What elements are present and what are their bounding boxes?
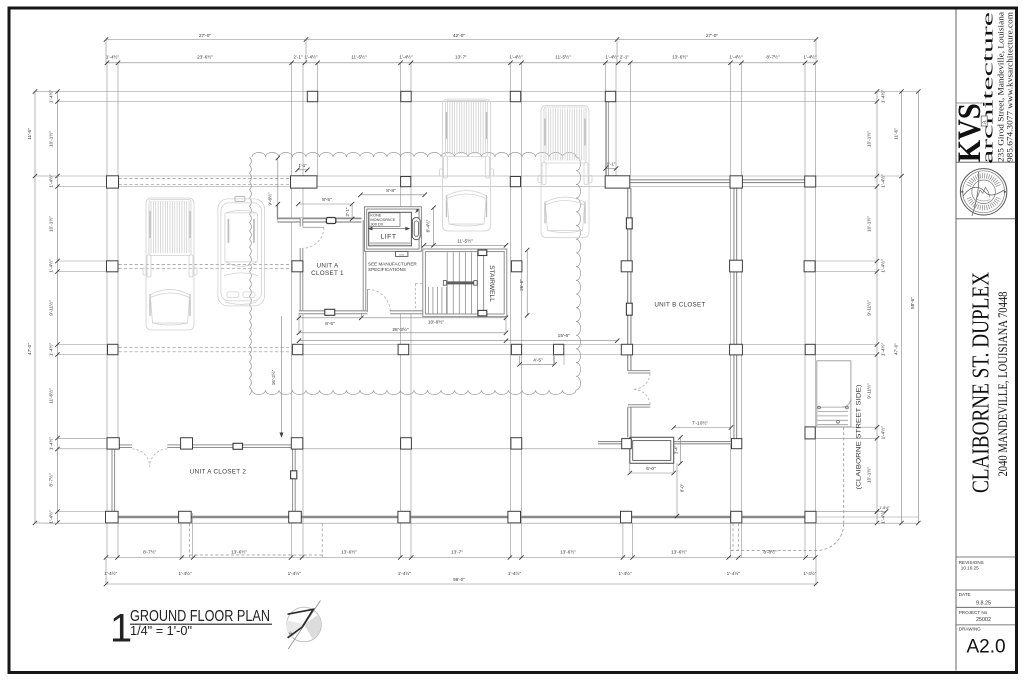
svg-text:2'-1": 2'-1" (620, 55, 630, 60)
svg-text:1'-4½": 1'-4½" (880, 510, 886, 524)
wide column C6 at R2 (605, 176, 630, 188)
R6 top line extension right (816, 510, 886, 512)
svg-text:26'-6": 26'-6" (519, 279, 524, 291)
svg-text:CLAIBORNE ST. DUPLEX: CLAIBORNE ST. DUPLEX (969, 272, 995, 493)
dim 6-0 below stoop (630, 472, 674, 474)
stair main flight treads (446, 252, 448, 313)
right dimension chain (876, 92, 878, 524)
svg-text:96'-0": 96'-0" (453, 577, 465, 582)
svg-text:8'-7½": 8'-7½" (48, 473, 54, 487)
bottom dimension segment line (106, 557, 816, 559)
column grid line C4 (400, 63, 402, 208)
svg-text:1'-4½": 1'-4½" (880, 259, 886, 273)
svg-text:8'-8½": 8'-8½" (763, 549, 777, 555)
svg-text:1'-4½": 1'-4½" (729, 54, 743, 60)
dim 3-4 right of stoop (680, 437, 682, 463)
dim 11-5.5 above stairwell (424, 244, 506, 246)
unit B closet west wall on C6 (627, 188, 631, 371)
dim 4-5 below R4 (520, 363, 555, 365)
right overall dimension 58-6 (917, 92, 919, 524)
svg-text:235 Girod Street, Mandeville,: 235 Girod Street, Mandeville, Louisiana (997, 11, 1006, 162)
column grid line C7 (730, 63, 732, 558)
svg-text:47'-0": 47'-0" (893, 343, 898, 355)
column grid line C1 (106, 63, 108, 558)
svg-text:13'-6½": 13'-6½" (672, 54, 688, 60)
dashed porch lines below R6 (188, 523, 190, 557)
closet 2 double door arcs (132, 449, 150, 467)
stair lower flight treads (427, 287, 429, 314)
right dimension 11-6 and 47-0 line (901, 92, 903, 524)
columns row R3 (107, 261, 119, 272)
svg-text:11'-5½": 11'-5½" (351, 54, 367, 60)
closet 1 lower door swing (368, 289, 391, 312)
svg-text:9'-11½": 9'-11½" (48, 300, 54, 316)
svg-text:REVISIONS: REVISIONS (959, 560, 984, 565)
svg-text:10'-1½": 10'-1½" (48, 131, 54, 147)
architect seal (960, 169, 1006, 215)
svg-text:1'-4½": 1'-4½" (880, 90, 886, 104)
svg-text:8'-5": 8'-5" (325, 321, 335, 327)
dim 8-4.5 vertical right of lift (433, 208, 435, 246)
svg-text:9'-11½": 9'-11½" (866, 300, 872, 316)
svg-text:1'-4½": 1'-4½" (304, 54, 318, 60)
svg-text:architecture: architecture (980, 11, 996, 164)
dim 16-2.5 vertical below closet1 (281, 316, 283, 437)
dim 8-0 below stoop vertical (676, 463, 678, 516)
seal signature lines (972, 172, 979, 216)
grid line row R5 extensions (58, 437, 108, 439)
wall on C6 between R1 and R2 (606, 102, 609, 177)
svg-text:10'-9½": 10'-9½" (428, 319, 445, 326)
svg-text:7'-10½": 7'-10½" (692, 420, 709, 427)
svg-text:SEE MANUFACTURER: SEE MANUFACTURER (368, 262, 417, 267)
claiborne side stair landing (817, 361, 851, 427)
grid line row R2 (58, 175, 902, 177)
svg-text:13'-6½": 13'-6½" (231, 549, 247, 555)
claiborne side stair treads (818, 406, 849, 408)
stairwell room (424, 250, 505, 315)
svg-text:1: 1 (110, 607, 132, 651)
entry stoop with steps (630, 437, 674, 463)
svg-text:LIFT: LIFT (381, 234, 397, 241)
grid line row R1 (top structure band) (58, 91, 919, 93)
porch wall at R5 right (598, 441, 737, 444)
window rect on unit B west wall upper (626, 218, 632, 229)
svg-text:1'-8½": 1'-8½" (879, 506, 890, 510)
svg-text:GROUND FLOOR PLAN: GROUND FLOOR PLAN (130, 608, 270, 625)
svg-text:10'-1½": 10'-1½" (866, 216, 872, 232)
dashed parking stall lines row R2 (119, 178, 291, 180)
svg-text:DATE: DATE (959, 592, 971, 597)
window rect on unit B west wall lower (626, 303, 632, 315)
svg-text:1'-4½": 1'-4½" (880, 174, 886, 188)
svg-text:42'-0": 42'-0" (453, 33, 466, 39)
svg-text:47'-0": 47'-0" (27, 343, 32, 355)
lift door jamb arrow (416, 210, 419, 213)
columns row R1 (307, 91, 317, 101)
dim 1-1 at C6 wall (606, 168, 617, 170)
svg-text:2'-1": 2'-1" (345, 207, 350, 216)
sedan car parked left bay (218, 196, 265, 306)
svg-text:11'-5½": 11'-5½" (457, 238, 473, 245)
window rect on closet2 east wall (291, 471, 297, 479)
svg-text:13'-7": 13'-7" (455, 55, 467, 60)
svg-text:UNIT A: UNIT A (317, 262, 339, 269)
svg-text:11'-6": 11'-6" (27, 128, 32, 140)
window rect on closet1 top wall (326, 218, 335, 224)
svg-text:1'-4½": 1'-4½" (508, 570, 522, 576)
columns row R4 (108, 344, 119, 354)
svg-text:A: A (982, 120, 988, 125)
window rect on stairwell bottom wall (478, 310, 487, 316)
top dimension extension verticals (105, 40, 107, 63)
window rect on closet1 bottom wall (325, 309, 335, 315)
unit A closet 2 room (112, 444, 297, 513)
north arrow compass (287, 607, 322, 642)
dim 1-8.5 near driveway (875, 509, 879, 513)
svg-text:1'-4½": 1'-4½" (509, 54, 523, 60)
unit B closet north wall (630, 179, 805, 183)
svg-text:2040 MANDEVILLE, LOUISIANA 704: 2040 MANDEVILLE, LOUISIANA 70448 (996, 292, 1010, 477)
svg-text:27'-0": 27'-0" (706, 33, 719, 39)
unit B entry door stubs and arcs (628, 370, 650, 373)
svg-text:PROJECT No: PROJECT No (959, 610, 988, 615)
svg-text:1'-4½": 1'-4½" (178, 570, 192, 576)
svg-text:xxxx: xxxx (399, 253, 405, 256)
svg-text:8'-5": 8'-5" (322, 197, 332, 203)
dim 8-5 above closet1 (298, 203, 352, 205)
dim 8-8 above lift (361, 194, 425, 196)
svg-text:27'-0": 27'-0" (199, 33, 212, 39)
revision cloud around central core (252, 152, 576, 157)
column C8 at R5 right (805, 427, 815, 439)
svg-text:DRAWING: DRAWING (959, 627, 981, 632)
dim 15-6 between C5 and C6 (299, 340, 617, 342)
column grid line C5 (510, 63, 512, 558)
svg-text:8'-7½": 8'-7½" (766, 54, 780, 60)
svg-text:10.16.25: 10.16.25 (961, 566, 979, 571)
column grid line C8 (804, 63, 806, 558)
svg-text:1'-4½": 1'-4½" (399, 54, 413, 60)
columns row R2 (107, 176, 119, 188)
svg-text:1'-1": 1'-1" (298, 163, 307, 168)
svg-text:25002: 25002 (976, 617, 991, 623)
svg-text:STAIRWELL: STAIRWELL (488, 265, 495, 302)
svg-text:13'-6½": 13'-6½" (560, 549, 576, 555)
svg-text:1'-4½": 1'-4½" (803, 570, 817, 576)
pickup truck parked top bay 2 (538, 106, 592, 238)
lift shaft enclosure (366, 208, 421, 250)
unit B closet east wall on C7 (733, 187, 737, 444)
closet 1 entry door swing (dashed arc) (303, 227, 324, 248)
kone label box (369, 213, 400, 227)
svg-text:CLOSET 1: CLOSET 1 (311, 270, 344, 277)
svg-text:1'-4½": 1'-4½" (48, 259, 54, 273)
svg-text:3'-4": 3'-4" (673, 445, 678, 454)
svg-text:1'-4½": 1'-4½" (106, 54, 120, 60)
dim 28-3.5 below core (299, 332, 506, 334)
grid line row R3 extensions (58, 260, 108, 262)
lift sill plate (396, 252, 408, 257)
svg-text:985.674.3077 www.kvsarchitect: 985.674.3077 www.kvsarchitecture.com (1005, 11, 1014, 162)
dim 9-6.5 vertical left of lift (277, 158, 279, 219)
svg-text:1'-4½": 1'-4½" (398, 570, 412, 576)
column grid line C5b (553, 355, 555, 365)
dim 10-9.5 below stairwell (361, 317, 506, 319)
dim 2-1 vertical at closet1 (351, 204, 353, 219)
svg-text:9.8.25: 9.8.25 (976, 601, 991, 607)
window rect on closet2 top wall (233, 443, 243, 449)
svg-text:1/4" = 1'-0": 1/4" = 1'-0" (130, 624, 192, 638)
svg-text:1'-4½": 1'-4½" (48, 437, 54, 451)
svg-text:11'-6": 11'-6" (893, 128, 898, 140)
svg-text:8'-7½": 8'-7½" (143, 549, 157, 555)
dim 26-6 vertical right of stairwell (526, 250, 528, 315)
column grid line C3 (291, 63, 293, 558)
svg-text:1'-4½": 1'-4½" (618, 570, 632, 576)
svg-text:13'-7": 13'-7" (451, 550, 463, 555)
lift door mechanism (412, 218, 420, 240)
svg-text:10'-1½": 10'-1½" (48, 216, 54, 232)
svg-text:10'-1½": 10'-1½" (866, 131, 872, 147)
svg-text:8'-8": 8'-8" (386, 188, 396, 194)
dashed landing outside stairwell (415, 283, 424, 285)
grid line row R4 (58, 344, 108, 346)
svg-text:13'-6½": 13'-6½" (341, 549, 357, 555)
wide column C3 at R2 (291, 176, 318, 188)
svg-text:15'-6": 15'-6" (558, 333, 571, 339)
svg-text:UNIT B CLOSET: UNIT B CLOSET (654, 301, 705, 308)
svg-text:1'-4½": 1'-4½" (880, 426, 886, 440)
top dimension total line 27-0 42-0 27-0 (106, 39, 816, 41)
svg-text:UNIT A CLOSET 2: UNIT A CLOSET 2 (190, 469, 247, 476)
registered mark box (981, 116, 987, 126)
dim 8-5 below closet1 (299, 317, 361, 319)
svg-text:8'-0": 8'-0" (680, 483, 685, 492)
dim 7-10.5 right of stoop to C7 (674, 427, 731, 429)
top dimension segment line (106, 62, 816, 64)
svg-text:23'-6½": 23'-6½" (197, 54, 213, 60)
lift car KONE monospace 300 DX (369, 212, 412, 246)
dashed parking stall lines row R4 (119, 346, 293, 348)
left dimension chain (57, 92, 59, 523)
svg-text:6'-0": 6'-0" (646, 466, 656, 472)
pickup truck parked left bay (143, 198, 197, 330)
svg-text:(CLAIBORNE STREET SIDE): (CLAIBORNE STREET SIDE) (857, 385, 863, 490)
svg-text:2'-1": 2'-1" (293, 55, 303, 60)
svg-text:16'-2½": 16'-2½" (270, 369, 276, 385)
svg-text:1'-4½": 1'-4½" (48, 343, 54, 357)
window rect on stairwell top wall (478, 250, 487, 256)
svg-text:1'-4½": 1'-4½" (288, 570, 302, 576)
dashed driveway path at Claiborne street side (843, 427, 845, 524)
column grid line C6 upper (605, 63, 607, 176)
svg-text:4'-5": 4'-5" (533, 358, 543, 364)
pickup truck parked top bay 1 (440, 99, 494, 231)
svg-text:8'-4½": 8'-4½" (425, 219, 431, 232)
stair rail between flights (446, 281, 473, 284)
bottom total dimension 96-0 (106, 583, 816, 585)
svg-text:28'-3½": 28'-3½" (392, 326, 409, 333)
svg-text:1'-1": 1'-1" (607, 161, 616, 166)
grid line row R6 bottom band (107, 516, 816, 519)
svg-text:9'-6½": 9'-6½" (267, 192, 273, 205)
svg-text:300 DX: 300 DX (370, 221, 383, 226)
svg-text:1'-4½": 1'-4½" (48, 510, 54, 524)
porch edge line at R5 (303, 448, 630, 450)
dashed parking stall lines row R3 (119, 263, 292, 265)
svg-text:11'-6½": 11'-6½" (48, 388, 54, 404)
svg-text:11'-5½": 11'-5½" (555, 54, 571, 60)
dim 1-1 at wide column C3 (298, 169, 308, 171)
svg-text:9'-11½": 9'-11½" (866, 383, 872, 399)
unit A closet 1 room (299, 218, 367, 314)
svg-text:1'-4½": 1'-4½" (880, 343, 886, 357)
svg-text:A2.0: A2.0 (966, 637, 1005, 658)
title block left border line (955, 10, 957, 671)
seal crest scribble (978, 187, 990, 197)
column grid line C2 (180, 438, 182, 558)
svg-text:SPECIFICATIONS: SPECIFICATIONS (368, 267, 406, 272)
lift interior arrow (368, 228, 409, 230)
left outer dimension line 11-6 47-0 (34, 92, 36, 524)
svg-text:13'-6½": 13'-6½" (671, 549, 687, 555)
title block section dividers (956, 161, 1015, 163)
svg-text:1'-4½": 1'-4½" (727, 570, 741, 576)
svg-text:1'-4½": 1'-4½" (803, 54, 817, 60)
columns row R6 (106, 511, 119, 523)
svg-text:58'-6": 58'-6" (910, 297, 915, 309)
svg-text:10'-1½": 10'-1½" (866, 467, 872, 483)
columns row R5 (107, 438, 119, 449)
